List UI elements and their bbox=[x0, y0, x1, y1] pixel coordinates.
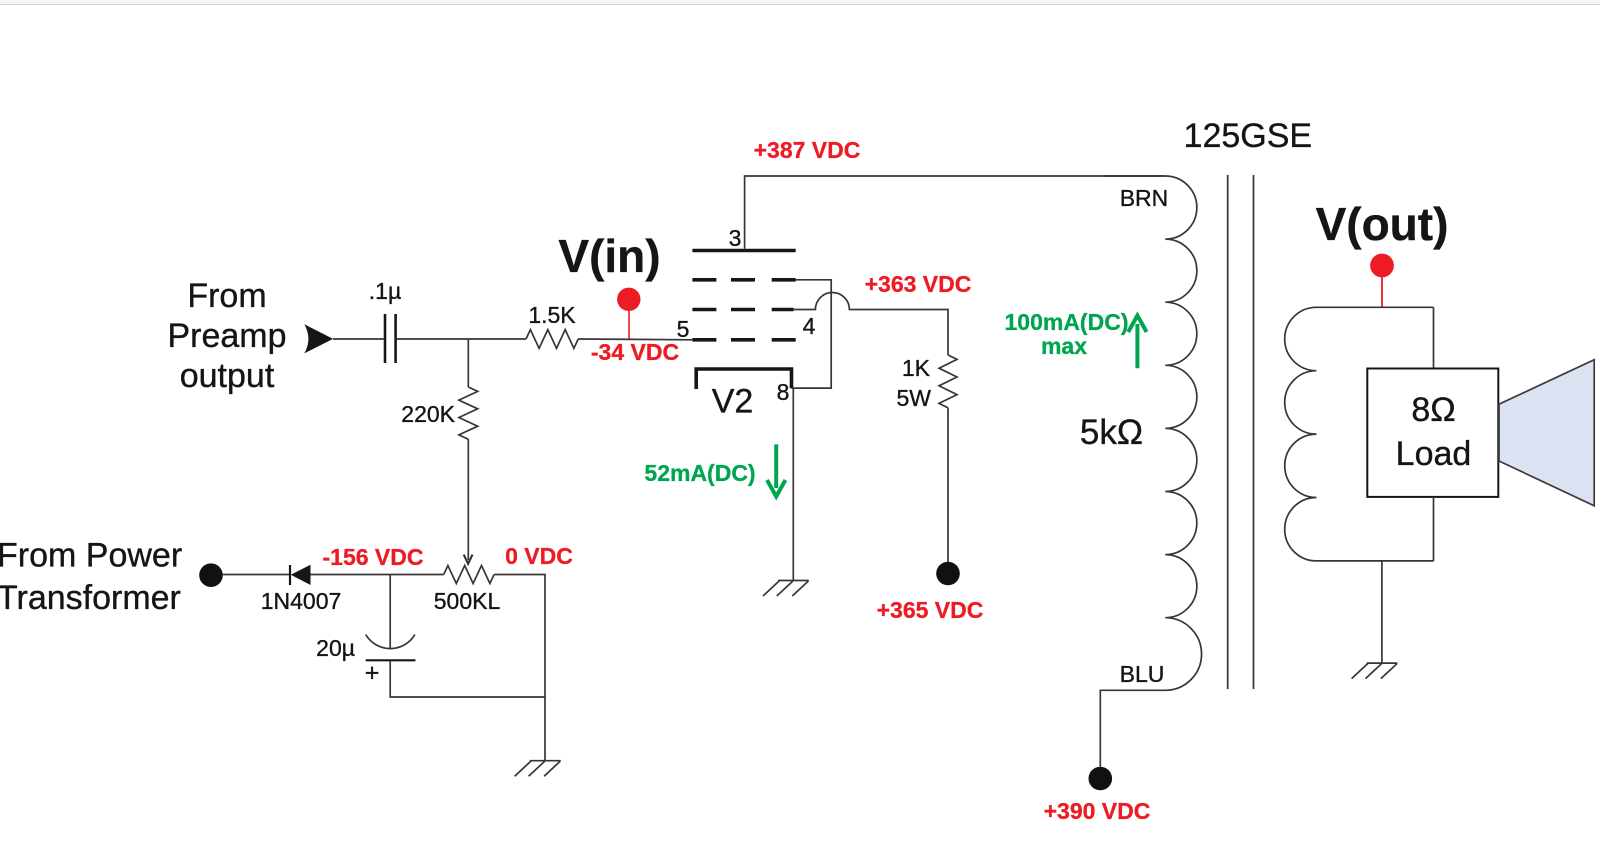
ground (cathode) bbox=[763, 581, 809, 597]
tube V2: plate bar bbox=[692, 249, 795, 253]
svg-text:4: 4 bbox=[803, 313, 816, 339]
tube V2: cathode bracket bbox=[696, 369, 791, 389]
svg-text:100mA(DC): 100mA(DC) bbox=[1005, 309, 1129, 335]
wire: diode to pot bbox=[311, 574, 444, 576]
svg-text:output: output bbox=[180, 357, 275, 395]
svg-text:0 VDC: 0 VDC bbox=[505, 543, 573, 569]
svg-text:500KL: 500KL bbox=[434, 588, 501, 614]
svg-text:BRN: BRN bbox=[1120, 185, 1169, 211]
green up arrow bbox=[1128, 316, 1146, 369]
wire: suppressor to cathode bbox=[792, 280, 832, 388]
svg-text:max: max bbox=[1041, 333, 1087, 359]
svg-text:.1µ: .1µ bbox=[369, 278, 401, 304]
probe stem bbox=[1381, 275, 1383, 307]
label From Power Transformer bbox=[0, 537, 182, 618]
svg-text:Transformer: Transformer bbox=[0, 579, 181, 617]
speaker cone bbox=[1499, 360, 1594, 506]
svg-text:8Ω: 8Ω bbox=[1411, 391, 1455, 429]
label: From Preamp output bbox=[167, 277, 286, 395]
wire: down to ground bbox=[544, 697, 546, 761]
svg-text:-34 VDC: -34 VDC bbox=[591, 339, 679, 365]
input terminal dot bbox=[199, 563, 223, 587]
load box bbox=[1367, 369, 1498, 497]
resistor R2 1.5K (horizontal zigzag) bbox=[526, 330, 578, 349]
green down arrow bbox=[767, 444, 785, 496]
ground (load) bbox=[1352, 663, 1398, 679]
resistor R1 220K (vertical zigzag) bbox=[459, 387, 478, 439]
svg-text:From Power: From Power bbox=[0, 537, 182, 575]
svg-text:125GSE: 125GSE bbox=[1184, 117, 1313, 155]
svg-text:+365 VDC: +365 VDC bbox=[877, 597, 984, 623]
svg-text:V2: V2 bbox=[712, 383, 754, 421]
svg-text:BLU: BLU bbox=[1120, 661, 1165, 687]
capacitor C2 20u curved plate bbox=[366, 635, 415, 649]
transformer secondary winding bbox=[1285, 307, 1434, 561]
wire: 1.5K to grid pin 5 bbox=[578, 338, 692, 341]
svg-text:Preamp: Preamp bbox=[167, 317, 286, 355]
svg-text:V(in): V(in) bbox=[558, 230, 660, 282]
svg-text:5: 5 bbox=[677, 316, 690, 342]
wire: pot to right drop bbox=[494, 575, 545, 698]
plate wire up and right to transformer bbox=[745, 176, 1164, 249]
wiper arrowhead bbox=[464, 555, 473, 564]
resistor R3 1K 5W (vertical zigzag) bbox=[939, 355, 957, 408]
wire: secondary top to load bbox=[1433, 307, 1435, 368]
svg-text:1K: 1K bbox=[902, 355, 931, 381]
tube V2: grid row 3 (control, pin 5) bbox=[692, 338, 795, 342]
V(out) probe dot bbox=[1370, 254, 1394, 278]
potentiometer 500KL (horizontal zigzag) bbox=[444, 566, 494, 584]
terminal dot +365 bbox=[936, 562, 960, 586]
tube V2: grid row 1 (suppressor) bbox=[692, 278, 795, 282]
svg-text:1.5K: 1.5K bbox=[528, 302, 576, 328]
transformer primary winding bbox=[1100, 176, 1201, 767]
V(in) probe dot bbox=[617, 288, 640, 311]
wire: screen pin4 with hop to 1K bbox=[794, 293, 948, 356]
svg-text:+: + bbox=[365, 659, 380, 687]
capacitor C2 straight plate bbox=[366, 659, 416, 661]
wire: 220K to pot wiper arrow bbox=[467, 439, 469, 560]
svg-text:+390 VDC: +390 VDC bbox=[1044, 798, 1151, 824]
svg-text:+363 VDC: +363 VDC bbox=[865, 271, 972, 297]
svg-text:20µ: 20µ bbox=[316, 635, 355, 661]
svg-text:+387 VDC: +387 VDC bbox=[754, 137, 861, 163]
wire: cathode to ground bbox=[792, 388, 794, 580]
svg-text:1N4007: 1N4007 bbox=[261, 588, 342, 614]
ground (pot/cap) bbox=[515, 761, 561, 777]
node junction to 220K bbox=[467, 339, 469, 387]
terminal dot +390 bbox=[1089, 767, 1113, 791]
svg-text:3: 3 bbox=[729, 225, 742, 251]
probe stem bbox=[628, 309, 630, 339]
svg-text:From: From bbox=[187, 277, 266, 315]
svg-text:52mA(DC): 52mA(DC) bbox=[644, 460, 755, 486]
svg-text:V(out): V(out) bbox=[1316, 198, 1449, 250]
svg-text:220K: 220K bbox=[401, 401, 455, 427]
wire: junction to 20u cap bbox=[389, 575, 391, 649]
capacitor C1 .1u bbox=[384, 314, 387, 363]
svg-text:Load: Load bbox=[1396, 435, 1472, 473]
wire: to ground bbox=[1381, 561, 1383, 663]
wire: capacitor to resistor R2 1.5K bbox=[397, 338, 526, 340]
input arrow bbox=[304, 324, 333, 353]
wire: arrow to capacitor C1 bbox=[333, 338, 384, 340]
wire: dot to diode bbox=[223, 574, 289, 576]
tube V2: grid row 2 (screen, pin 4) bbox=[692, 308, 793, 312]
wire: cap bottom bbox=[390, 661, 545, 697]
diode D1 1N4007 bbox=[289, 565, 291, 585]
top browser strip bbox=[0, 0, 1600, 5]
svg-text:-156 VDC: -156 VDC bbox=[323, 544, 424, 570]
svg-text:8: 8 bbox=[777, 379, 790, 405]
svg-text:5kΩ: 5kΩ bbox=[1080, 413, 1143, 452]
wire: load bottom to secondary bbox=[1433, 497, 1435, 561]
svg-text:5W: 5W bbox=[897, 385, 932, 411]
wire: 1K down to terminal bbox=[947, 408, 949, 562]
transformer core lines bbox=[1227, 175, 1229, 689]
